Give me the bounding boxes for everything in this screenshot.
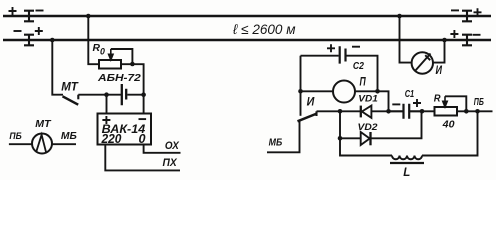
wire rail 1 (top rail) [3,15,491,17]
label + in VAK box [102,116,110,124]
battery ABN-72 cell [122,84,126,105]
label + C2 [327,44,335,52]
transmitter MT [32,134,52,154]
relay I (impulse track relay) [412,52,433,73]
wiper arrow R [443,96,447,107]
node battery left [104,92,109,97]
label - C1 [392,103,400,105]
node battery right [141,92,146,97]
rectifier VAK-14 box [98,114,152,145]
wire node A vertical [340,111,392,155]
node P coil left [298,89,303,94]
capacitor C1 [389,104,423,119]
diode VD1 [340,110,360,112]
label - in VAK box [139,118,147,120]
wire MT contact to battery [78,94,121,96]
node rail1 to relay I [397,14,402,19]
wire feed vertical from rail1 [88,16,99,64]
insulated joint rail2 right [462,35,472,46]
label - rail2 left [14,30,22,32]
node A top [338,109,343,114]
insulated joint rail1 right [462,11,472,22]
wire VAK 220 terminal to PKh [105,145,180,171]
svg-text:МБ: МБ [269,137,283,149]
node PB junction [475,109,480,114]
svg-text:С2: С2 [353,61,364,72]
wire PB down to L [422,111,478,155]
label - rail2 right [473,34,481,36]
transmitter MT pendulum symbol [36,135,46,152]
diode VD2 [340,137,360,139]
svg-text:VD2: VD2 [358,122,379,133]
node C (C1 right / R left) [420,109,425,114]
wire R right lead [457,110,493,112]
wire rail1 down to relay I [400,16,412,63]
node B (P right / C1 left) [386,109,391,114]
wire VAK 0 terminal to OKh [144,145,181,153]
label + rail1 right [474,8,482,16]
wire MB to relay I contact [267,121,300,152]
contact MT (transmitter contact) [63,96,79,104]
resistor R [422,110,435,112]
wire P coil left vertical [300,56,302,116]
insulated joint rail1 left [24,11,34,22]
wire R wiper bypass [445,96,466,111]
node rail2 to MT contact [50,38,55,43]
svg-text:И: И [436,65,443,77]
svg-text:ℓ ≤ 2600 м: ℓ ≤ 2600 м [232,21,296,37]
svg-text:ПБ: ПБ [474,97,484,108]
label - rail1 right [451,9,459,11]
contact I fixed tick [315,111,317,116]
node A bottom [338,136,343,141]
svg-text:АБН-72: АБН-72 [97,72,141,84]
svg-text:И: И [307,97,315,109]
wire battery left down to VAK box [106,95,108,114]
wire C2 right vertical [347,56,378,92]
svg-text:МБ: МБ [61,130,77,142]
wire MB lead from MT transmitter [52,143,76,145]
node R0 right lead junction [130,62,135,67]
svg-text:R: R [434,93,441,104]
wire PB lead to MT transmitter [9,143,32,145]
resistor R0 [99,60,121,69]
wiper arrow R0 [109,49,113,60]
wire C2 left [301,55,339,57]
node R bypass junction [464,109,469,114]
contact MT fixed tick [77,95,79,100]
label + rail2 right [450,30,458,38]
insulated joint rail2 left [24,35,34,46]
svg-text:МТ: МТ [35,119,52,130]
svg-text:МТ: МТ [61,80,79,94]
node C2 right [375,89,380,94]
wire rail2 down to MT contact [52,40,63,95]
wire relay I to rail2 [433,40,445,63]
svg-text:VD1: VD1 [358,93,378,104]
inductor L [392,156,422,160]
node feed on rail1 [86,14,91,19]
wire rail 2 (bottom rail) [3,39,491,41]
wire battery right [127,94,143,96]
node rail2 relay I [442,38,447,43]
capacitor C2 [340,46,346,63]
wire P coil right lead [355,91,389,111]
wire P coil left lead [301,90,334,92]
wire R0 right lead [121,64,144,113]
relay I arrow [415,54,431,72]
label + rail2 left [35,27,43,35]
inductor L core [390,162,424,164]
label + rail1 left [9,7,17,15]
svg-text:0: 0 [139,132,146,146]
label - rail1 left [36,10,44,12]
svg-text:ОХ: ОХ [165,140,180,152]
svg-text:С1: С1 [405,89,415,100]
relay P coil [333,81,355,103]
svg-text:ПБ: ПБ [9,131,22,142]
svg-text:220: 220 [101,132,122,146]
svg-text:П: П [360,75,366,89]
wire R0 wiper bypass [111,49,133,64]
svg-text:L: L [403,167,410,179]
label + C1 [413,99,421,107]
svg-text:ПХ: ПХ [163,157,178,169]
svg-text:40: 40 [442,120,455,131]
contact I blade [298,114,317,121]
label - C2 [352,46,360,48]
wire I contact to node A [317,110,341,112]
